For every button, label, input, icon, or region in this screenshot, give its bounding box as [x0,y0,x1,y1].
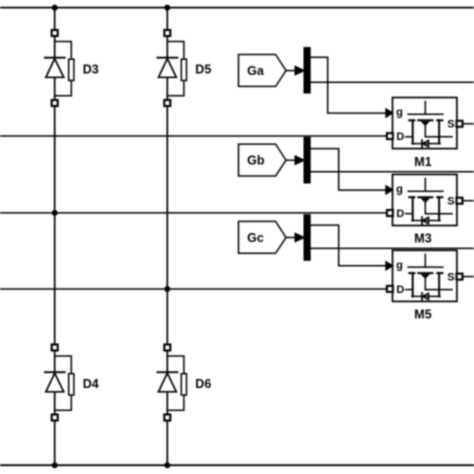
wire vertical right leg [166,8,168,466]
diode D4 [45,345,74,421]
wire source of M3 to right edge [462,200,474,202]
wire Gc bar branch to right edge [310,247,474,249]
label Gb [247,154,265,168]
mosfet M3 block [393,174,457,225]
pin label D of M1 [396,131,404,143]
pin label g of M1 [396,107,403,119]
svg-text:g: g [396,259,403,271]
svg-text:Gb: Gb [247,154,265,168]
wire Gb bar to gate [310,149,386,191]
pin label D of M5 [396,284,404,296]
wire Gc bar to gate [310,225,386,266]
mosfet M1 body diode [422,140,429,147]
svg-text:D6: D6 [195,377,211,391]
label D3 [83,63,99,77]
diode D6 [157,345,186,421]
bus bar Ga (mux) [304,48,310,94]
junction top bus / left leg [52,5,58,11]
mosfet M1 block [393,98,457,149]
pin label D of M3 [396,208,404,220]
wire phase-B bus to M3 drain [0,212,388,214]
svg-text:Ga: Ga [247,64,265,78]
svg-text:S: S [447,195,454,207]
wire Gb bar branch to right edge [310,171,474,173]
svg-text:M1: M1 [414,155,431,169]
svg-text:D5: D5 [195,63,211,77]
wire source of M5 to right edge [462,276,474,278]
svg-text:D: D [396,131,404,143]
mosfet M3 body diode [422,217,429,224]
svg-text:g: g [396,184,403,196]
pin label S of M3 [447,195,454,207]
pin label S of M5 [447,271,454,283]
wire phase-A bus to M1 drain [0,135,388,137]
gate input arrowhead of M5 [386,261,393,270]
junction top bus / right leg [164,5,170,11]
drain port of M5 [387,286,393,292]
goto tag Ga [239,55,287,87]
mosfet M1 symbol [406,102,452,144]
wire bottom bus (DC- rail) [0,464,474,466]
wire Gc tag to bus bar with arrowhead [286,233,305,242]
drain port of M3 [387,210,393,216]
svg-text:D3: D3 [83,63,99,77]
junction bottom bus / left leg [52,462,58,468]
label M5 [414,308,431,322]
drain port of M1 [387,133,393,139]
label D5 [195,63,211,77]
junction phase-C bus / right leg [164,286,170,292]
label D4 [83,377,99,391]
wire top bus (DC+ rail) [0,7,474,9]
wire Ga bar branch to right edge [310,81,474,83]
svg-text:D: D [396,208,404,220]
label M1 [414,155,431,169]
mosfet M5 body diode [422,293,429,300]
svg-text:g: g [396,107,403,119]
svg-text:Gc: Gc [247,231,264,245]
svg-text:S: S [447,271,454,283]
pin label g of M5 [396,259,403,271]
goto tag Gc [239,221,287,253]
svg-text:D4: D4 [83,377,99,391]
svg-text:M3: M3 [414,232,431,246]
svg-text:M5: M5 [414,308,431,322]
svg-text:S: S [447,119,454,131]
label M3 [414,232,431,246]
diode D3 [45,30,74,106]
label D6 [195,377,211,391]
wire phase-C bus to M5 drain [0,288,388,290]
pin label S of M1 [447,119,454,131]
diode D5 [157,30,186,106]
gate input arrowhead of M3 [386,186,393,195]
label Ga [247,64,265,78]
bus bar Gb (mux) [304,137,310,183]
junction phase-B bus / left leg [52,210,58,216]
junction bottom bus / right leg [164,462,170,468]
source port of M3 [457,198,463,204]
gate input arrowhead of M1 [386,109,393,118]
mosfet M5 symbol [406,254,452,296]
pin label g of M3 [396,184,403,196]
mosfet M3 symbol [406,179,452,221]
wire source of M1 to right edge [462,123,474,125]
wire Ga tag to bus bar with arrowhead [286,66,305,75]
source port of M5 [457,274,463,280]
wire Gb tag to bus bar with arrowhead [286,156,305,165]
wire Ga bar to gate [310,57,386,113]
goto tag Gb [239,144,287,176]
wire vertical left leg [54,8,56,466]
label Gc [247,231,264,245]
source port of M1 [457,121,463,127]
bus bar Gc (mux) [304,215,310,261]
mosfet M5 block [393,250,457,301]
svg-text:D: D [396,284,404,296]
